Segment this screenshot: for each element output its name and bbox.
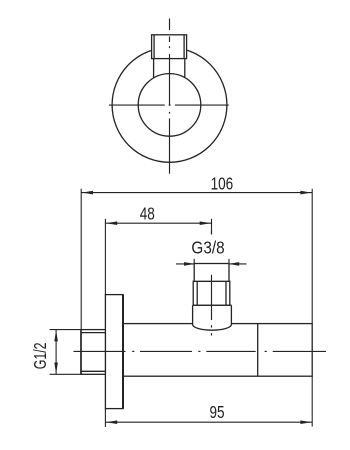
flange left edge lower extension to 95 <box>104 409 106 427</box>
side view: wall flange <box>105 295 123 409</box>
svg-text:95: 95 <box>209 404 224 423</box>
dimension 48 right extension tick <box>211 219 213 235</box>
svg-text:106: 106 <box>211 175 234 194</box>
dimension 95 arrow right <box>300 420 311 424</box>
dimension G1/2 arrow up <box>54 330 58 341</box>
top view vertical centerline <box>169 19 171 174</box>
dimension 48 arrow right <box>200 221 211 225</box>
dimension 106 arrow left <box>82 191 93 195</box>
dimension extension line left (x=81.2, for 106) <box>80 189 82 330</box>
dimension G3/8 arrow line left <box>176 263 194 265</box>
side view: flange right edge (thick) <box>122 295 124 409</box>
dimension G3/8 arrowhead left <box>184 262 195 266</box>
dimension G1/2 arrow line <box>55 330 57 375</box>
top view: nut chamfer line right <box>183 35 185 59</box>
dimension G1/2 extension top <box>50 329 81 331</box>
side view: body joint line <box>257 324 259 377</box>
side view: nipple thread line bottom <box>81 370 106 372</box>
side view horizontal centerline <box>74 350 327 352</box>
dimension G1/2 arrow down <box>54 363 58 374</box>
side view: outlet boss with rounded base <box>193 305 232 330</box>
dimension 95 arrow left <box>106 420 117 424</box>
svg-text:G1/2: G1/2 <box>31 342 51 369</box>
dimension extension line right (x=312.2) <box>311 189 313 324</box>
dimension 106 line <box>81 192 312 194</box>
top view: outlet pipe right edge <box>184 59 186 79</box>
dimension 106 arrow right <box>300 191 311 195</box>
dimension 95 line <box>105 421 312 423</box>
svg-text:G3/8: G3/8 <box>191 239 224 258</box>
dimension extension line x=105.4 (48 / flange / 95) <box>104 219 106 295</box>
top view horizontal centerline <box>109 104 229 106</box>
dimension G3/8 extension right <box>228 259 230 264</box>
top view: valve body outer circle <box>112 48 227 163</box>
right extension below body <box>311 376 313 426</box>
dimension G3/8 arrow line right <box>229 263 247 265</box>
dimension G1/2 extension bottom <box>50 373 81 375</box>
dimension G3/8 extension left <box>193 259 195 264</box>
top view: nut chamfer line left <box>153 35 155 59</box>
top view: valve inner circle <box>138 74 201 137</box>
svg-text:48: 48 <box>140 205 155 224</box>
side view: outlet thread G3/8 <box>194 264 229 282</box>
side view: nut chamfer right <box>225 281 227 305</box>
dimension G3/8 arrowhead right <box>228 262 239 266</box>
dimension 48 line <box>105 222 211 224</box>
nipple left end edge <box>80 330 82 375</box>
side view: nut chamfer left <box>196 281 198 305</box>
side view: outlet hex nut <box>193 281 230 305</box>
side view outlet vertical centerline <box>211 230 213 336</box>
dimension 48 arrow left <box>106 221 117 225</box>
top view: outlet nut <box>152 35 187 59</box>
side view: nut bottom / boss top edge <box>193 304 232 306</box>
top view: outlet pipe left edge <box>153 59 155 79</box>
side view: G1/2 inlet nipple <box>81 330 106 375</box>
side view: valve body <box>123 324 312 377</box>
side view: nipple thread line top <box>81 332 106 334</box>
